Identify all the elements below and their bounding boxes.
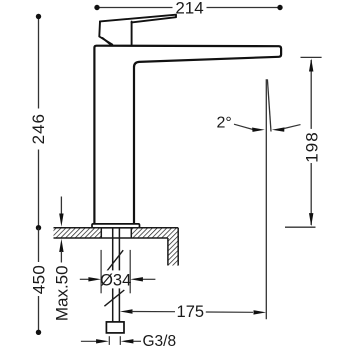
dimension 450 (deck to supply) <box>38 228 40 333</box>
svg-text:Ø34: Ø34 <box>100 272 131 290</box>
svg-text:214: 214 <box>175 0 203 17</box>
dimension Max.50 (deck thickness) <box>60 197 62 215</box>
dimension diameter 34 (hole size) <box>80 250 156 293</box>
svg-text:450: 450 <box>29 265 48 295</box>
svg-text:Max.50: Max.50 <box>52 265 71 321</box>
pipe break mark upper <box>106 250 123 272</box>
svg-text:198: 198 <box>303 131 322 162</box>
dimension 246 (height above deck) <box>38 17 40 228</box>
handle grip <box>99 21 131 44</box>
dimension 175 (projection) <box>120 309 133 313</box>
2deg left leader <box>234 124 253 129</box>
faucet body outline (column + spout) <box>94 46 281 224</box>
G3/8 connector <box>106 322 124 333</box>
dimension 198 (spout outlet height) <box>285 57 322 227</box>
supply pipe shank <box>113 228 120 322</box>
svg-text:G3/8: G3/8 <box>143 333 177 350</box>
svg-text:175: 175 <box>177 303 205 321</box>
countertop deck (hatched) right slab <box>131 228 178 238</box>
pipe break mark lower <box>104 290 124 306</box>
2deg right leader <box>272 127 285 131</box>
dimension 214 (top overall length) <box>97 7 278 9</box>
deck edge lines <box>54 228 179 266</box>
dimension G3/8 (thread) <box>81 336 141 345</box>
svg-text:2°: 2° <box>217 115 232 132</box>
base plate <box>92 224 140 228</box>
countertop deck vertical return <box>168 238 178 266</box>
svg-text:246: 246 <box>29 113 48 144</box>
handle lever blade <box>100 15 176 23</box>
2 degree tilted line <box>267 79 271 131</box>
water stream reference line <box>265 79 267 319</box>
countertop deck (hatched) left slab <box>54 228 102 238</box>
